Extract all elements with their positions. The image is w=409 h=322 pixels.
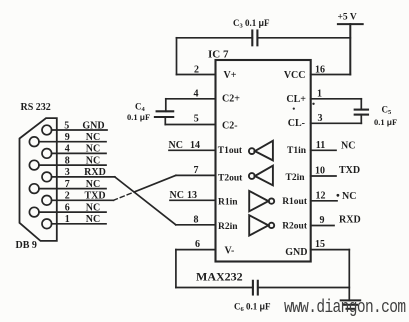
svg-text:VCC: VCC [284, 70, 306, 81]
svg-text:16: 16 [315, 64, 325, 75]
wire DB9 pin7 NC row [39, 188, 106, 190]
svg-text:T2in: T2in [285, 173, 305, 183]
svg-text:1: 1 [65, 214, 70, 225]
svg-text:4: 4 [194, 88, 199, 99]
svg-text:MAX232: MAX232 [196, 269, 243, 283]
+5V supply [338, 24, 363, 74]
wire pin3 stub [311, 122, 362, 124]
wire V+ riser [176, 38, 178, 75]
svg-text:6: 6 [65, 202, 70, 213]
wire pin9 stub RXD [311, 225, 334, 227]
wire GND drop [348, 250, 350, 301]
svg-text:V-: V- [225, 246, 235, 257]
svg-text:1: 1 [317, 88, 322, 99]
node dot before NC of pin 12 [337, 194, 340, 197]
wire C3 to +5V [257, 37, 350, 39]
svg-text:9: 9 [320, 215, 325, 226]
wire pin11 stub NC [311, 149, 336, 151]
svg-text:2: 2 [65, 191, 70, 202]
svg-text:13: 13 [187, 190, 197, 201]
svg-text:NC: NC [86, 155, 100, 166]
svg-text:R1in: R1in [218, 197, 238, 207]
wire pin2 stub [177, 74, 216, 76]
wire DB9 pin8 NC row [39, 164, 106, 166]
wire pin14 stub NC [169, 149, 216, 151]
buffer R1 inverter [249, 191, 274, 211]
wire TXD to T2out diagonal solid part [135, 175, 176, 191]
svg-text:TXD: TXD [339, 165, 360, 176]
svg-text:7: 7 [65, 179, 70, 190]
svg-text:C2-: C2- [222, 120, 238, 131]
wire pin8 stub [176, 224, 216, 226]
svg-text:TXD: TXD [84, 191, 105, 202]
buffer T1 inverter [249, 141, 273, 161]
op-amp U1 MAX232 IC body [216, 60, 311, 262]
svg-text:C2+: C2+ [222, 94, 240, 105]
svg-text:0.1 μF: 0.1 μF [374, 117, 397, 127]
svg-text:T1out: T1out [218, 146, 243, 156]
svg-text:9: 9 [65, 132, 70, 143]
wire C5 top lead [360, 99, 362, 110]
wire pin7 stub [176, 174, 216, 176]
svg-text:IC 7: IC 7 [208, 49, 229, 61]
wire pin5 stub [165, 124, 215, 126]
wire DB9 pin5 GND row [52, 129, 107, 131]
wire DB9 pin9 NC row [39, 141, 106, 143]
buffer R2 inverter [249, 215, 274, 235]
wire C5 bottom lead [360, 115, 362, 124]
svg-text:11: 11 [316, 140, 325, 151]
wire pin6 stub [176, 249, 216, 251]
svg-text:GND: GND [285, 247, 307, 258]
DB9 connector shell [20, 118, 57, 241]
wire DB9 pin4 NC row [52, 152, 106, 154]
wire top to C3 [177, 37, 253, 39]
svg-text:NC: NC [86, 202, 100, 213]
wire DB9 pin3 RXD row [52, 176, 115, 178]
svg-text:2: 2 [194, 64, 199, 75]
svg-text:NC: NC [170, 190, 184, 201]
node dot artifact near pin 1 [312, 103, 314, 105]
svg-text:T1in: T1in [287, 146, 307, 156]
capacitor C4 [155, 111, 173, 117]
wire RXD to R2in diagonal [115, 177, 176, 225]
svg-text:C3 0.1 μF: C3 0.1 μF [233, 18, 270, 30]
svg-text:RXD: RXD [84, 167, 106, 178]
svg-text:C5: C5 [382, 105, 393, 117]
wire bottom to C6 [176, 287, 253, 289]
svg-text:NC: NC [86, 132, 100, 143]
ground [341, 300, 361, 308]
svg-text:NC: NC [341, 140, 355, 151]
svg-text:T2out: T2out [218, 174, 243, 184]
svg-text:R1out: R1out [282, 197, 308, 207]
svg-text:NC: NC [342, 191, 356, 202]
svg-text:5: 5 [64, 120, 69, 131]
svg-text:NC: NC [86, 144, 100, 155]
wire C4 top lead [165, 99, 167, 112]
svg-text:RXD: RXD [339, 215, 361, 226]
wire pin10 stub TXD [311, 175, 336, 177]
svg-text:+5 V: +5 V [338, 13, 357, 23]
svg-text:V+: V+ [224, 70, 237, 81]
wire DB9 pin6 NC row [39, 211, 106, 213]
wire pin16 stub [311, 74, 351, 76]
svg-text:NC: NC [86, 214, 100, 225]
svg-text:DB 9: DB 9 [16, 240, 37, 251]
svg-text:R2in: R2in [218, 222, 238, 232]
wire DB9 pin2 TXD row [52, 199, 114, 201]
wire DB9 pin1 NC row [52, 223, 106, 225]
svg-text:3: 3 [318, 113, 323, 124]
svg-text:NC: NC [169, 140, 183, 151]
svg-text:CL+: CL+ [286, 94, 306, 105]
wire C6 to ground [258, 287, 350, 289]
svg-text:12: 12 [316, 190, 326, 201]
svg-text:7: 7 [194, 165, 199, 176]
wire TXD to T2out diagonal dashed part [113, 192, 135, 201]
svg-text:10: 10 [315, 166, 325, 177]
node dot artifact near CL- [293, 108, 295, 110]
wire pin15 stub [311, 249, 350, 251]
svg-text:3: 3 [65, 167, 70, 178]
svg-text:RS 232: RS 232 [21, 102, 51, 113]
wire V- drop [175, 250, 177, 288]
capacitor C3 [252, 31, 257, 46]
wire pin1 stub [311, 98, 362, 100]
svg-text:0.1 μF: 0.1 μF [127, 112, 150, 122]
svg-text:CL-: CL- [288, 118, 305, 129]
DB9 pin contact circles [29, 125, 51, 228]
capacitor C6 [253, 281, 258, 295]
svg-text:8: 8 [194, 214, 199, 225]
wire C4 bottom lead [164, 117, 166, 125]
svg-text:5: 5 [194, 113, 199, 124]
capacitor C5 [355, 110, 368, 115]
svg-text:www.diangon.com: www.diangon.com [284, 296, 406, 317]
wire pin13 stub NC [170, 199, 216, 201]
svg-text:GND: GND [82, 120, 104, 131]
wire pin4 stub [166, 98, 216, 100]
svg-text:NC: NC [86, 179, 100, 190]
svg-text:8: 8 [65, 155, 70, 166]
wire pin12 stub NC [311, 200, 337, 202]
svg-text:C6 0.1 μF: C6 0.1 μF [234, 302, 271, 314]
buffer T2 inverter [249, 166, 273, 186]
svg-text:R2out: R2out [282, 221, 308, 231]
svg-text:15: 15 [315, 239, 325, 250]
svg-text:4: 4 [65, 144, 70, 155]
svg-text:14: 14 [190, 140, 200, 151]
svg-text:6: 6 [195, 239, 200, 250]
